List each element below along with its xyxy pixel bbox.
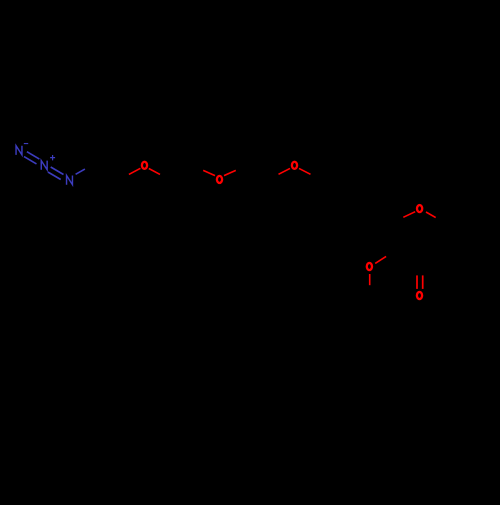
bond CH2-O1 red half (left) [129,168,141,174]
double bond N1=N2 upper line [27,152,39,159]
bond O3-C(aryl) red half (right) [299,168,311,174]
bond N3-CH2 blue half [76,169,85,174]
ether oxygen O3 label [292,162,297,169]
bond CH2-O2 red half (left) [203,170,215,175]
C3 ether oxygen O5 label [367,263,372,270]
ether oxygen O1 label [142,162,147,169]
bond O5-CH2(benzyl) red half (down) [369,274,371,285]
bond C2-O4 red half (left) [403,212,415,218]
bond CH2-O3 red half (left) [279,168,291,174]
ether oxygen O2 label [217,176,222,183]
bond O1-CH2 red half (right) [149,169,160,175]
bond C3-O5 red half (upper right) [375,256,386,263]
double bond N1=N2 lower line [24,157,36,164]
carbonyl oxygen O6 label [417,292,422,299]
double bond N2=N3 upper line [51,167,64,175]
N2 plus charge superscript [50,155,55,160]
azide central N2 (N plus) label [41,161,47,170]
bond O2-CH2 red half (right) [224,170,236,175]
azide terminal N1 (N minus) label [16,146,22,155]
chromone ring oxygen O4 label [417,205,422,212]
bond O4-C8a red half (right) [426,212,436,218]
N1 minus charge superscript [24,143,28,145]
double bond C4=O6 right line [422,275,424,289]
double bond C4=O6 left line [416,275,418,289]
double bond N2=N3 lower line [48,172,61,180]
azide inner N3 label [67,176,73,185]
